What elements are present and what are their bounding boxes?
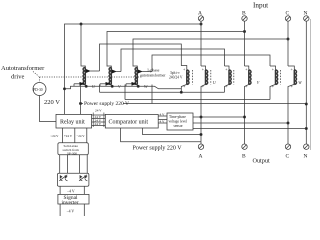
svg-text:+ 2: + 2	[79, 81, 84, 86]
transformer T6a	[225, 66, 234, 92]
svg-text:+: +	[183, 67, 186, 72]
wire bracket L2 phase B	[107, 30, 246, 66]
transformer T4	[181, 65, 192, 93]
wire input A vertical	[200, 21, 202, 66]
svg-text:+: +	[291, 84, 294, 89]
svg-text:Input: Input	[253, 2, 268, 10]
svg-text:U: U	[92, 84, 96, 89]
page edge line	[310, 19, 312, 150]
output terminal C	[285, 144, 290, 160]
svg-text:autotransformer: autotransformer	[140, 73, 166, 78]
wire bridge L6 variac3 wiper to T7	[152, 55, 270, 72]
variac V1	[74, 24, 100, 92]
wire bridge L5 variac2 wiper to T6a	[121, 49, 225, 72]
comparator-sensor links	[158, 113, 167, 124]
relay unit box	[56, 114, 92, 128]
variac V2	[100, 66, 125, 100]
time-phase sensor box	[167, 113, 193, 130]
comparator bottom wire 1	[121, 128, 201, 142]
svg-text:+ 2: + 2	[131, 81, 136, 86]
wires to signal inverter	[60, 186, 84, 194]
transformer T5 phase A	[201, 66, 217, 142]
svg-text:Relay unit: Relay unit	[60, 120, 85, 126]
output terminal A	[198, 142, 203, 160]
svg-text:B: B	[242, 154, 246, 160]
svg-text:−4 V: −4 V	[67, 210, 75, 214]
svg-text:Power supply 220 V: Power supply 220 V	[84, 101, 129, 107]
svg-text:+: +	[202, 84, 205, 89]
svg-text:Power supply 220 V: Power supply 220 V	[133, 146, 183, 152]
svg-text:N: N	[304, 154, 308, 160]
svg-text:U: U	[213, 80, 217, 85]
wire S1 drop to relay	[80, 85, 82, 114]
svg-text:V: V	[118, 84, 121, 89]
sensor output line 3 to N	[193, 128, 306, 130]
wire bracket L3 phase C	[133, 38, 289, 67]
svg-text:drive: drive	[11, 74, 24, 81]
label 1-phase autotransformer	[140, 68, 166, 78]
transformer T6b phase B	[245, 66, 260, 144]
svg-text:−4 V: −4 V	[67, 190, 75, 194]
optocoupler box	[57, 173, 89, 186]
label Autotransformer drive	[1, 65, 45, 81]
svg-text:+: +	[225, 84, 228, 89]
wire bus B3 power supply 220V	[79, 102, 306, 104]
svg-text:+: +	[245, 67, 248, 72]
svg-text:Comparator unit: Comparator unit	[109, 120, 149, 126]
input terminal C	[285, 11, 290, 22]
signal inverter box	[58, 194, 89, 206]
svg-text:W: W	[144, 84, 148, 89]
svg-text:voltage level: voltage level	[169, 120, 187, 124]
wire bus B1	[100, 91, 225, 93]
wire S1 variac secondary bus	[63, 85, 181, 90]
relay bottom wires with labels	[51, 128, 87, 143]
svg-text:Time-phase: Time-phase	[169, 115, 186, 119]
svg-text:+: +	[183, 84, 186, 89]
svg-text:3ph t-r: 3ph t-r	[170, 71, 180, 75]
svg-text:4 V: 4 V	[160, 120, 165, 124]
optocoupler pair right	[80, 175, 83, 179]
svg-text:4 V: 4 V	[160, 113, 165, 117]
svg-text:PD-30: PD-30	[33, 88, 43, 92]
svg-text:inverter: inverter	[62, 200, 79, 206]
switchboard switch box	[58, 143, 88, 156]
input terminal A	[198, 11, 204, 22]
svg-text:+: +	[245, 84, 248, 89]
svg-text:+: +	[291, 67, 294, 72]
label Output	[253, 158, 270, 165]
switch box bottom wires	[60, 155, 87, 176]
svg-text:24 V: 24 V	[95, 122, 102, 126]
label 3ph t-r 240/24 V	[169, 71, 183, 80]
svg-text:+: +	[272, 67, 275, 72]
svg-text:W: W	[298, 80, 302, 85]
optocoupler pair left	[60, 175, 63, 179]
transformer T7	[270, 66, 281, 100]
comparator unit box	[105, 114, 158, 128]
svg-text:+: +	[202, 67, 205, 72]
svg-text:−24 V: −24 V	[77, 134, 86, 138]
input terminal N	[304, 11, 309, 22]
wire input B vertical	[244, 21, 246, 66]
svg-text:240/24 V: 240/24 V	[169, 76, 183, 80]
wire input C vertical	[287, 21, 289, 66]
svg-text:+: +	[225, 67, 228, 72]
output terminal B	[242, 144, 247, 160]
input terminal B	[242, 11, 247, 22]
output terminal N	[304, 141, 309, 160]
wire bracket L1 phase A	[65, 23, 203, 115]
svg-text:C: C	[286, 154, 290, 160]
relay-comparator 24V links	[92, 109, 106, 128]
motor PD-30	[33, 83, 56, 122]
svg-text:+24 V: +24 V	[64, 134, 73, 138]
comparator bottom wire 2	[143, 128, 203, 136]
svg-text:Autotransformer: Autotransformer	[1, 65, 45, 72]
svg-text:A: A	[199, 154, 203, 160]
svg-text:220 V: 220 V	[44, 99, 60, 106]
label 220 V	[44, 99, 60, 106]
svg-text:+ 2: + 2	[105, 81, 110, 86]
sensor output line 1 to A,B	[193, 116, 246, 118]
wire bus B2	[125, 99, 270, 101]
signal inverter bottom wires	[60, 204, 84, 216]
wire bridge L4 variac1 wiper to T4	[100, 44, 182, 71]
sensor output line 2 to C	[193, 122, 289, 124]
svg-text:sensor: sensor	[174, 124, 184, 128]
variac V3	[126, 66, 152, 104]
label Power supply 220 V (upper)	[83, 100, 129, 108]
svg-text:V: V	[257, 80, 260, 85]
label Power supply 220 V (lower)	[133, 146, 183, 152]
node Input label	[253, 2, 268, 10]
svg-text:SP-300: SP-300	[67, 151, 77, 155]
wire input N vertical	[305, 21, 307, 140]
transformer T8 phase C	[288, 66, 302, 144]
svg-text:+: +	[272, 84, 275, 89]
svg-text:~24 V: ~24 V	[51, 134, 60, 138]
svg-text:Output: Output	[253, 158, 270, 165]
svg-text:24 V: 24 V	[95, 109, 102, 113]
autotransformer drive dashed link	[33, 72, 142, 83]
